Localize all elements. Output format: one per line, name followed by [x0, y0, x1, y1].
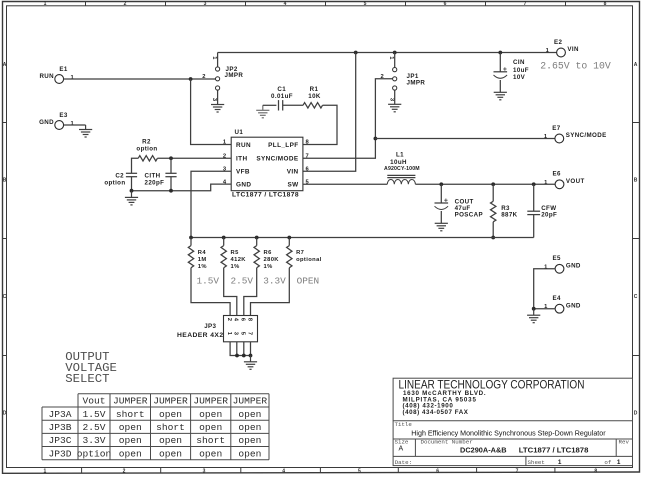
wire JP3 pin7 stub	[250, 342, 252, 356]
svg-text:7: 7	[524, 1, 527, 7]
svg-text:JUMPER: JUMPER	[193, 396, 228, 407]
wire C2 bottom to GND rail	[131, 177, 133, 191]
svg-text:3: 3	[204, 1, 207, 7]
terminal E3 GND	[39, 112, 74, 129]
svg-text:1: 1	[44, 1, 47, 7]
svg-text:OPEN: OPEN	[297, 275, 320, 286]
svg-text:VIN: VIN	[287, 168, 299, 175]
junction rail at R5	[222, 236, 226, 240]
ground at JP2	[211, 105, 224, 113]
svg-text:R4: R4	[198, 250, 207, 256]
svg-text:1%: 1%	[198, 264, 207, 270]
svg-text:2: 2	[202, 74, 206, 80]
wire R3 bottom stem	[492, 222, 494, 238]
svg-text:GND: GND	[566, 302, 581, 309]
svg-text:7: 7	[516, 468, 519, 474]
svg-text:220pF: 220pF	[145, 179, 165, 186]
svg-text:L1: L1	[396, 152, 404, 159]
wire CFW bottom to feedback rail	[533, 215, 535, 238]
ground at CIN	[494, 92, 507, 100]
svg-text:8: 8	[594, 468, 597, 474]
wire R6 to JP3	[244, 268, 257, 316]
svg-text:Rev: Rev	[619, 439, 630, 446]
svg-text:LTC1877 / LTC1878: LTC1877 / LTC1878	[519, 445, 589, 454]
wire R4 top stem	[190, 238, 192, 246]
svg-text:JUMPER: JUMPER	[233, 396, 268, 407]
label output voltage select heading	[65, 350, 117, 386]
svg-text:HEADER 4X2: HEADER 4X2	[177, 332, 224, 339]
title block	[393, 378, 632, 465]
svg-text:open: open	[159, 409, 182, 420]
wire E4 to ground node	[534, 308, 555, 310]
svg-text:GND: GND	[39, 119, 54, 126]
svg-text:R5: R5	[231, 250, 240, 256]
ground at C1	[256, 105, 269, 118]
wire L1 to E6 VOUT	[415, 183, 555, 185]
svg-text:20pF: 20pF	[541, 211, 557, 218]
svg-text:10K: 10K	[308, 93, 321, 100]
wire JP3 pin5 stub	[243, 342, 245, 356]
resistor R5 412K	[221, 246, 246, 270]
svg-text:E6: E6	[553, 171, 562, 178]
svg-text:R6: R6	[264, 250, 273, 256]
svg-text:optional: optional	[296, 257, 322, 263]
junction VOUT at R3	[491, 182, 495, 186]
wire E7 to SYNC node	[375, 138, 555, 140]
svg-text:open: open	[199, 409, 222, 420]
wire JP2 pin3 to ground	[217, 90, 219, 104]
resistor R1 10K	[303, 86, 323, 108]
svg-text:2: 2	[123, 468, 126, 474]
ground at JP3	[244, 356, 257, 370]
svg-text:D: D	[3, 411, 7, 417]
svg-text:C1: C1	[277, 86, 286, 93]
ground at COUT	[435, 223, 448, 231]
capacitor C2 option	[104, 172, 137, 186]
svg-text:5: 5	[364, 1, 367, 7]
wire CFW top stem	[533, 184, 535, 211]
svg-text:open: open	[238, 422, 261, 433]
terminal E5 GND	[544, 255, 581, 273]
svg-text:8: 8	[604, 1, 607, 7]
svg-text:RUN: RUN	[236, 142, 251, 149]
wire U1 pin5 SW to L1	[303, 183, 387, 185]
svg-text:6: 6	[436, 468, 439, 474]
capacitor CIN 10uF 10V	[494, 59, 529, 81]
svg-text:ITH: ITH	[236, 156, 247, 163]
capacitor CFW 20pF	[527, 205, 557, 219]
junction VIN rail at JP1	[393, 51, 397, 55]
wire R7 top stem	[288, 238, 290, 246]
wire R3 top stem	[492, 184, 494, 201]
wire R7 to JP3	[251, 268, 290, 316]
wire R5 top stem	[223, 238, 225, 246]
wire VFB from U1 pin3 down to feedback rail	[191, 171, 231, 237]
svg-text:10uF: 10uF	[513, 67, 529, 74]
svg-text:Vout: Vout	[82, 396, 105, 407]
svg-text:1: 1	[44, 468, 47, 474]
svg-text:open: open	[238, 409, 261, 420]
svg-text:short: short	[196, 435, 225, 446]
junction ground rail at pin7	[249, 354, 253, 358]
junction ITH at CITH	[169, 156, 173, 160]
junction RUN node	[189, 77, 193, 81]
wire CIN from VIN rail	[499, 53, 501, 72]
svg-text:JP3B: JP3B	[48, 422, 71, 433]
svg-text:A920CY-100M: A920CY-100M	[384, 166, 420, 172]
svg-text:JP3A: JP3A	[48, 409, 71, 420]
svg-text:2.5V: 2.5V	[231, 275, 254, 286]
svg-text:4: 4	[284, 1, 287, 7]
svg-text:C2: C2	[115, 172, 124, 179]
ground at E3	[79, 125, 92, 137]
svg-text:option: option	[77, 448, 112, 459]
svg-text:option: option	[136, 146, 157, 153]
svg-text:SELECT: SELECT	[65, 372, 109, 386]
wire RUN down to U1 pin1	[191, 79, 231, 145]
wire VIN rail	[218, 52, 557, 54]
wire E3 to ground	[64, 124, 86, 126]
wire JP1 pin1 up to VIN rail	[394, 53, 396, 68]
terminal E6 VOUT	[544, 171, 585, 189]
IC U1 LTC1877/LTC1878 regulator	[231, 129, 303, 198]
svg-text:Title: Title	[395, 421, 413, 428]
svg-text:3.3V: 3.3V	[263, 275, 286, 286]
wire JP3 pin1 to ground rail	[230, 342, 250, 356]
terminal E7 SYNC/MODE	[544, 125, 607, 143]
svg-text:option: option	[104, 179, 125, 186]
svg-text:E7: E7	[552, 125, 561, 132]
svg-text:1: 1	[558, 459, 562, 466]
svg-text:8: 8	[306, 140, 310, 146]
svg-text:A: A	[398, 446, 403, 453]
svg-text:E4: E4	[553, 295, 562, 302]
svg-text:SYNC/MODE: SYNC/MODE	[566, 132, 607, 139]
svg-text:JMPR: JMPR	[225, 72, 244, 79]
capacitor C1 0.01uF	[271, 86, 293, 110]
svg-text:E5: E5	[553, 255, 562, 262]
wire R5 to JP3	[224, 268, 237, 316]
svg-text:open: open	[199, 448, 222, 459]
junction VIN rail at U1 VIN branch	[354, 51, 358, 55]
svg-text:CITH: CITH	[145, 172, 161, 179]
junction rail at R6	[255, 236, 259, 240]
svg-text:CIN: CIN	[513, 59, 525, 66]
wire E1 to JP2 pin2	[64, 78, 216, 80]
svg-text:LTC1877 / LTC1878: LTC1877 / LTC1878	[232, 192, 299, 199]
svg-text:1: 1	[617, 459, 621, 466]
svg-text:6: 6	[444, 1, 447, 7]
svg-text:of: of	[604, 459, 611, 466]
junction VOUT at COUT	[439, 182, 443, 186]
svg-text:R1: R1	[310, 86, 319, 93]
svg-text:1: 1	[544, 180, 548, 186]
svg-text:6: 6	[306, 166, 310, 172]
wire CITH bottom	[170, 177, 172, 191]
svg-text:1: 1	[70, 75, 74, 81]
svg-text:412K: 412K	[231, 257, 247, 263]
svg-text:887K: 887K	[501, 211, 517, 218]
wire JP1 pin2 to SYNC node	[303, 79, 393, 159]
svg-text:Sheet: Sheet	[528, 459, 545, 466]
wire COUT to ground	[440, 211, 442, 223]
wire C1 left	[263, 104, 277, 106]
junction ground node E4	[532, 307, 536, 311]
svg-text:1: 1	[223, 140, 227, 146]
wire E5 to E4 node	[534, 269, 555, 309]
junction VIN rail at CIN	[498, 51, 502, 55]
svg-text:GND: GND	[236, 181, 251, 188]
svg-text:2.5V: 2.5V	[82, 422, 105, 433]
svg-text:JP3C: JP3C	[48, 435, 71, 446]
svg-text:E3: E3	[59, 112, 68, 119]
svg-text:10V: 10V	[513, 74, 526, 81]
junction rail at R4	[189, 236, 193, 240]
svg-text:High Efficiency Monolithic Syn: High Efficiency Monolithic Synchronous S…	[411, 428, 606, 437]
capacitor CITH 220pF	[145, 172, 177, 186]
junction VOUT at CFW	[532, 182, 536, 186]
svg-text:open: open	[119, 435, 142, 446]
svg-text:RUN: RUN	[39, 73, 54, 80]
svg-text:2.65V to 10V: 2.65V to 10V	[540, 60, 611, 71]
svg-text:VOUT: VOUT	[566, 178, 585, 185]
label company address	[403, 390, 486, 416]
capacitor COUT 47uF POSCAP	[435, 198, 484, 218]
svg-text:3.3V: 3.3V	[82, 435, 105, 446]
svg-text:DC290A-A&B: DC290A-A&B	[460, 445, 507, 454]
svg-text:E1: E1	[59, 66, 68, 73]
svg-text:open: open	[159, 448, 182, 459]
svg-text:7: 7	[246, 332, 252, 335]
ground at C2	[125, 191, 138, 205]
svg-text:1.5V: 1.5V	[82, 409, 105, 420]
junction ground rail at pin5	[242, 354, 246, 358]
terminal E1 RUN	[39, 66, 74, 84]
wire JP3 pin3 stub	[236, 342, 238, 356]
wire JP2 pin1 to VIN rail	[217, 53, 219, 67]
svg-text:1: 1	[546, 48, 550, 54]
svg-text:0.01uF: 0.01uF	[271, 93, 293, 100]
svg-text:PLL_LPF: PLL_LPF	[268, 142, 298, 149]
wire R6 top stem	[256, 238, 258, 246]
wire R2 left to C2	[132, 158, 139, 173]
svg-text:A: A	[634, 62, 638, 68]
svg-text:open: open	[199, 422, 222, 433]
svg-text:open: open	[238, 435, 261, 446]
terminal E4 GND	[544, 295, 581, 313]
svg-text:VFB: VFB	[236, 168, 250, 175]
resistor R4 1M	[188, 246, 207, 270]
ground at JP1	[388, 104, 401, 112]
svg-text:U1: U1	[235, 129, 244, 136]
svg-text:1: 1	[544, 134, 548, 140]
svg-text:1.5V: 1.5V	[197, 275, 220, 286]
svg-text:C: C	[3, 294, 7, 300]
inductor L1 10uH A920CY-100M	[384, 152, 420, 185]
svg-text:JUMPER: JUMPER	[153, 396, 188, 407]
junction rail at R7	[287, 236, 291, 240]
resistor R2 option	[136, 139, 157, 161]
wire C1 to R1	[283, 104, 303, 106]
svg-text:4: 4	[282, 468, 285, 474]
svg-text:2: 2	[226, 318, 232, 321]
resistor R3 887K	[491, 201, 518, 222]
junction ground rail at pin3	[235, 354, 239, 358]
junction feedback rail at R3	[491, 236, 495, 240]
svg-text:open: open	[159, 435, 182, 446]
wire ITH from U1 pin2	[157, 157, 231, 159]
svg-text:open: open	[119, 448, 142, 459]
svg-text:3: 3	[203, 468, 206, 474]
svg-text:5: 5	[358, 468, 361, 474]
svg-text:VIN: VIN	[567, 46, 579, 53]
svg-text:E2: E2	[554, 39, 563, 46]
jumper JP2 JMPR	[216, 66, 244, 90]
svg-text:B: B	[3, 178, 7, 184]
table text	[48, 396, 267, 460]
wire COUT stem	[440, 184, 442, 203]
svg-text:R2: R2	[142, 139, 151, 146]
svg-text:SYNC/MODE: SYNC/MODE	[256, 156, 298, 163]
connector JP3 HEADER 4X2	[177, 316, 258, 342]
terminal E2 VIN	[546, 39, 579, 57]
ground at E4	[527, 309, 540, 323]
svg-text:open: open	[238, 448, 261, 459]
wire CIN to ground	[499, 80, 501, 92]
svg-text:Size: Size	[395, 439, 409, 446]
resistor R6 280K	[254, 246, 279, 270]
svg-text:short: short	[156, 422, 185, 433]
svg-text:7: 7	[306, 154, 310, 160]
svg-text:POSCAP: POSCAP	[455, 211, 483, 218]
svg-text:JP3: JP3	[204, 323, 216, 330]
svg-text:1%: 1%	[264, 264, 273, 270]
svg-text:B: B	[634, 178, 638, 184]
svg-text:R7: R7	[296, 250, 304, 256]
junction GND rail at CITH	[169, 189, 173, 193]
resistor R7 optional	[287, 246, 322, 268]
svg-text:1%: 1%	[231, 264, 240, 270]
svg-text:JUMPER: JUMPER	[113, 396, 148, 407]
wire VIN branch down to U1 pin6	[303, 53, 356, 172]
svg-text:open: open	[119, 422, 142, 433]
junction SYNC node at E7	[374, 137, 378, 141]
wire JP1 pin3 to ground	[394, 90, 396, 104]
wire feedback rail VFB	[191, 237, 534, 239]
svg-text:short: short	[116, 409, 145, 420]
junction GND rail at C2	[130, 189, 134, 193]
table output voltage select	[42, 394, 269, 460]
svg-text:1M: 1M	[198, 257, 207, 263]
wire R1 to U1 pin8 PLL_LPF	[303, 105, 337, 144]
svg-text:280K: 280K	[264, 257, 280, 263]
svg-text:JP3D: JP3D	[48, 448, 71, 459]
svg-text:A: A	[3, 62, 7, 68]
svg-text:1: 1	[70, 121, 74, 127]
svg-text:SW: SW	[287, 181, 299, 188]
svg-text:GND: GND	[566, 262, 581, 269]
wire CITH stem top	[170, 158, 172, 173]
wire R4 to JP3	[191, 268, 230, 316]
svg-text:C: C	[634, 294, 638, 300]
svg-text:(408) 434-0507 FAX: (408) 434-0507 FAX	[403, 409, 469, 416]
svg-text:D: D	[634, 411, 638, 417]
svg-text:JMPR: JMPR	[407, 80, 426, 87]
wire U1 GND rail	[132, 184, 232, 191]
svg-text:2: 2	[124, 1, 127, 7]
svg-text:Date:: Date:	[395, 459, 412, 466]
jumper JP1 JMPR	[393, 68, 426, 91]
